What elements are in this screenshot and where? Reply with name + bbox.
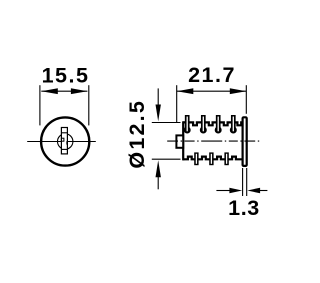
svg-text:1.3: 1.3 — [228, 196, 260, 220]
svg-text:21.7: 21.7 — [188, 63, 236, 87]
svg-text:15.5: 15.5 — [42, 63, 90, 87]
svg-text:Ø12.5: Ø12.5 — [125, 99, 149, 169]
